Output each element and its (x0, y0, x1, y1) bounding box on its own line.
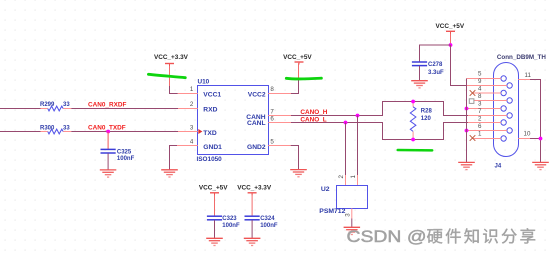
svg-text:VCC1: VCC1 (203, 92, 221, 99)
ground C325 (100, 170, 117, 177)
green highlight mark left (148, 74, 185, 77)
J4 pin 11 (518, 72, 531, 80)
capacitor C325 (101, 149, 116, 153)
svg-text:J4: J4 (495, 163, 502, 169)
J4 pin 7 (468, 108, 507, 116)
wire junction to C278 (420, 45, 451, 62)
J4 pin 2 (468, 115, 501, 122)
svg-text:CSDN @: CSDN @ (347, 227, 427, 246)
svg-text:ISO1050: ISO1050 (197, 156, 223, 163)
wire CAN0_TXDF net (0, 131, 178, 133)
wire CANO_L to U2 pin2 (345, 123, 347, 176)
svg-text:7: 7 (478, 108, 482, 115)
svg-text:10: 10 (524, 130, 531, 137)
wire CANO_L (291, 123, 468, 140)
capacitor C323 (207, 216, 222, 220)
svg-text:VCC_+3.3V: VCC_+3.3V (154, 54, 189, 61)
wire C324 to ground (251, 220, 253, 238)
power VCC_+3.3V (U10 pin1) (165, 64, 174, 67)
svg-text:2: 2 (338, 175, 345, 179)
svg-text:5: 5 (270, 139, 274, 146)
resistor R300 body (48, 129, 63, 134)
wire pin4 to ground (170, 146, 178, 170)
svg-text:C278: C278 (428, 62, 443, 68)
svg-text:TXD: TXD (203, 130, 217, 137)
J4 pin 4 (NC) (470, 85, 501, 95)
U10 pin 8 VCC2 (248, 86, 291, 98)
J4 pin 6 (467, 123, 507, 131)
label C278 3.3uF (428, 62, 444, 76)
svg-text:Conn_DB9M_TH: Conn_DB9M_TH (497, 54, 546, 61)
svg-text:7: 7 (270, 109, 274, 116)
resistor R300 pins (41, 131, 72, 133)
svg-text:120: 120 (421, 116, 432, 122)
svg-text:6: 6 (270, 116, 274, 123)
svg-text:4: 4 (478, 85, 482, 92)
U10 pin 1 VCC1 (178, 86, 222, 98)
svg-text:R28: R28 (421, 108, 433, 114)
J4 pin 10 (518, 130, 531, 138)
J4 pin 5 (467, 70, 501, 78)
junction CANO_H / U2 pin1 (356, 114, 360, 118)
green highlight mark under R28 (398, 149, 433, 152)
ground C278 (411, 81, 428, 88)
green highlight mark middle (286, 77, 321, 81)
svg-text:33: 33 (63, 125, 70, 131)
svg-text:C325: C325 (117, 149, 132, 155)
diode U2 PSM712 body (337, 186, 368, 209)
U10 pin 4 GND1 (177, 139, 222, 151)
wire C323 to ground (214, 220, 216, 238)
power VCC_+5V (U10 pin8) (295, 62, 304, 65)
U10 pin 2 RXD (178, 101, 218, 113)
junction R28 top (411, 100, 415, 104)
svg-text:VCC2: VCC2 (248, 92, 266, 99)
resistor R28 body (410, 107, 416, 132)
wire CANO_H to U2 pin1 (357, 116, 359, 176)
power VCC_+5V (DB9 pin9) (446, 31, 455, 34)
U2 pin 1 (350, 175, 357, 186)
junction CANO_L / U2 pin2 (344, 121, 348, 125)
label C324 100nF (260, 216, 278, 229)
J4 pin 8 (469, 93, 507, 104)
svg-text:3: 3 (190, 125, 194, 132)
svg-text:33: 33 (63, 102, 70, 108)
label R300 value 33 (40, 125, 70, 131)
connector J4 shell (494, 63, 519, 157)
svg-text:11: 11 (525, 72, 532, 79)
wire VCC to C324 (251, 193, 253, 216)
label R28 120 (421, 108, 433, 122)
U10 pin 5 GND2 (247, 139, 291, 151)
svg-text:1: 1 (350, 175, 357, 179)
power VCC_+5V (C323) (210, 193, 219, 196)
watermark CJK glyphs (427, 228, 535, 243)
U10 pin 6 CANL (247, 116, 291, 127)
junction VCC_+5V branch (449, 43, 453, 47)
svg-text:3: 3 (478, 100, 482, 107)
ground C324 (244, 238, 261, 245)
U2 pin 3 (344, 208, 351, 218)
ground J4 left (458, 162, 475, 169)
U10 pin 7 CANH (246, 109, 291, 122)
svg-text:2: 2 (478, 115, 482, 122)
svg-text:1: 1 (478, 130, 482, 137)
junction R28 bottom (411, 138, 415, 142)
resistor R299 body (48, 106, 63, 111)
svg-text:VCC_+3.3V: VCC_+3.3V (237, 184, 272, 191)
svg-text:GND2: GND2 (247, 144, 266, 151)
ground U2 (344, 227, 361, 234)
wire TXDF to C325 (107, 132, 109, 150)
svg-text:CANL: CANL (247, 120, 266, 127)
resistor R28 leads (412, 102, 414, 140)
svg-text:3: 3 (344, 213, 351, 217)
svg-text:VCC_+5V: VCC_+5V (199, 184, 228, 191)
svg-text:5: 5 (478, 70, 482, 77)
junction pin10 / gnd drop (539, 137, 543, 141)
svg-text:R299: R299 (40, 102, 55, 108)
wire VCC junction down to DB9 pin9 (451, 45, 467, 86)
label C323 100nF (222, 216, 240, 229)
wire pin11/pin10 to ground (530, 80, 541, 163)
junction pin3 to gnd rail (465, 107, 469, 111)
svg-text:8: 8 (270, 86, 274, 93)
svg-text:4: 4 (190, 139, 194, 146)
wire pin8 to VCC_+5V (291, 80, 299, 94)
svg-text:CANO_L: CANO_L (300, 117, 326, 124)
svg-text:C324: C324 (260, 216, 275, 222)
wire VCC down to junction (450, 32, 452, 46)
svg-text:100nF: 100nF (222, 223, 240, 229)
svg-text:GND1: GND1 (203, 144, 222, 151)
ground U10 GND1 (161, 170, 178, 177)
wire pin1 to VCC_+3.3V (170, 86, 178, 94)
junction on TXDF wire (106, 130, 110, 134)
svg-text:9: 9 (478, 78, 482, 85)
capacitor C278 (412, 62, 427, 66)
ground C323 (206, 238, 223, 245)
svg-text:1: 1 (190, 86, 194, 93)
svg-text:VCC_+5V: VCC_+5V (283, 54, 312, 61)
svg-text:PSM712: PSM712 (319, 208, 345, 215)
svg-text:C323: C323 (222, 216, 237, 222)
U2 pin 2 (338, 175, 346, 186)
wire CAN0_RXDF net (0, 108, 178, 110)
J4 pin holes (501, 76, 512, 141)
svg-text:VCC_+5V: VCC_+5V (436, 23, 465, 30)
svg-text:RXD: RXD (203, 106, 217, 113)
power VCC_+3.3V (C324) (248, 193, 257, 196)
ground J4 right (532, 162, 549, 169)
IC U10 ISO1050 body (198, 86, 269, 155)
resistor R299 pins (41, 108, 72, 110)
ground U10 GND2 (290, 170, 307, 177)
svg-text:U10: U10 (198, 79, 210, 86)
svg-text:R300: R300 (40, 125, 55, 131)
svg-text:U2: U2 (321, 186, 330, 193)
J4 pin 3 (467, 100, 501, 108)
wire gnd rail pins 5,3,6 (466, 79, 468, 163)
label R299 value 33 (40, 102, 70, 108)
J4 pin 9 (467, 78, 507, 86)
junction pin6 to gnd rail (465, 129, 469, 133)
svg-text:6: 6 (478, 123, 482, 130)
label C325 100nF (117, 149, 135, 162)
U10 pin 3 TXD (178, 125, 217, 137)
wire CANO_H (291, 102, 468, 116)
svg-text:8: 8 (478, 93, 482, 100)
wire pin5 to ground (291, 146, 299, 170)
svg-text:100nF: 100nF (260, 223, 278, 229)
wire C325 to ground (107, 153, 109, 169)
wire VCC to C323 (214, 193, 216, 216)
J4 pin 1 (NC) (470, 130, 501, 140)
svg-text:3.3uF: 3.3uF (428, 70, 444, 76)
wire C278 to ground (419, 66, 421, 80)
svg-text:CAN0_RXDF: CAN0_RXDF (88, 101, 126, 108)
svg-text:2: 2 (190, 101, 194, 108)
svg-text:100nF: 100nF (117, 156, 135, 162)
capacitor C324 (245, 216, 260, 220)
wire U2 pin3 to ground (351, 219, 353, 228)
svg-text:CANO_H: CANO_H (300, 109, 327, 116)
